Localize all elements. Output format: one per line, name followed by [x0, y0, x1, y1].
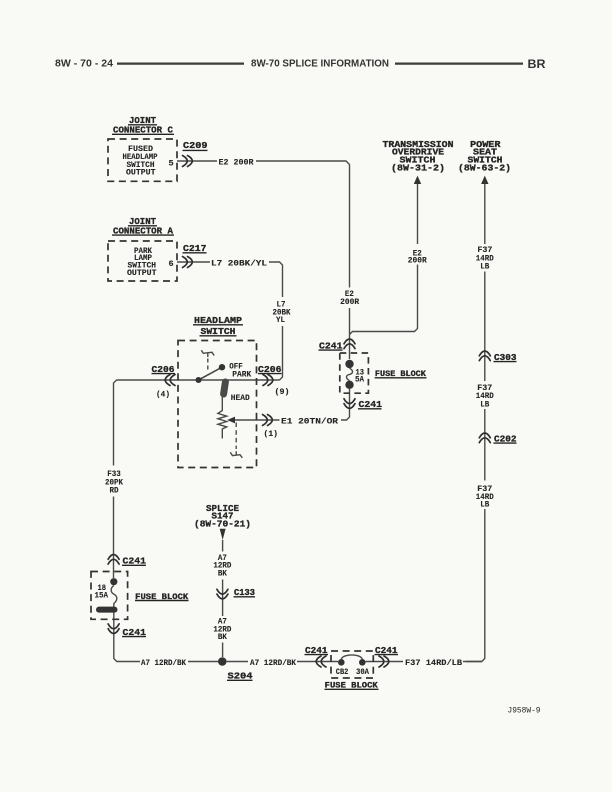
svg-text:(8W-63-2): (8W-63-2)	[458, 163, 511, 174]
svg-text:(9): (9)	[275, 387, 290, 397]
svg-text:5A: 5A	[355, 375, 365, 385]
svg-text:S204: S204	[228, 670, 253, 681]
svg-text:SWITCH: SWITCH	[201, 326, 236, 337]
svg-text:BK: BK	[218, 632, 228, 642]
svg-text:C241: C241	[319, 340, 343, 351]
svg-text:F37 14RD/LB: F37 14RD/LB	[405, 658, 462, 668]
svg-text:5: 5	[169, 159, 174, 169]
svg-text:L7 20BK/YL: L7 20BK/YL	[211, 258, 267, 268]
svg-text:LB: LB	[480, 400, 489, 410]
svg-text:8W - 70 - 24: 8W - 70 - 24	[55, 59, 113, 70]
svg-text:C217: C217	[183, 243, 207, 254]
svg-text:YL: YL	[276, 315, 285, 325]
svg-text:C241: C241	[123, 627, 147, 638]
svg-text:A7 12RD/BK: A7 12RD/BK	[141, 658, 187, 668]
svg-text:BK: BK	[218, 568, 228, 578]
svg-text:CB2: CB2	[336, 667, 349, 677]
svg-text:C206: C206	[152, 364, 175, 375]
svg-text:RD: RD	[110, 486, 119, 496]
svg-text:(4): (4)	[156, 390, 170, 400]
svg-text:FUSE BLOCK: FUSE BLOCK	[375, 369, 427, 379]
svg-text:J958W-9: J958W-9	[508, 706, 541, 716]
svg-text:(8W-70-21): (8W-70-21)	[194, 519, 251, 530]
svg-text:30A: 30A	[356, 667, 370, 677]
svg-text:C133: C133	[234, 587, 255, 598]
svg-text:OUTPUT: OUTPUT	[127, 268, 157, 278]
svg-text:C206: C206	[258, 364, 282, 375]
svg-text:E2 200R: E2 200R	[219, 157, 255, 167]
svg-text:C241: C241	[375, 645, 398, 656]
svg-text:C209: C209	[183, 140, 208, 151]
svg-text:LB: LB	[480, 500, 489, 510]
svg-text:C241: C241	[305, 645, 328, 656]
svg-text:CONNECTOR C: CONNECTOR C	[113, 125, 173, 136]
svg-text:200R: 200R	[340, 297, 360, 307]
svg-text:BR: BR	[528, 59, 547, 71]
svg-text:C241: C241	[359, 399, 383, 410]
svg-text:FUSE BLOCK: FUSE BLOCK	[325, 680, 379, 690]
svg-text:C303: C303	[494, 352, 517, 363]
svg-text:HEADLAMP: HEADLAMP	[194, 315, 242, 326]
svg-text:OUTPUT: OUTPUT	[126, 168, 156, 178]
svg-text:HEAD: HEAD	[231, 393, 250, 403]
svg-text:C241: C241	[123, 556, 147, 567]
svg-text:(1): (1)	[264, 429, 279, 439]
svg-text:C202: C202	[494, 433, 517, 444]
svg-text:A7 12RD/BK: A7 12RD/BK	[250, 658, 297, 668]
svg-text:6: 6	[169, 259, 174, 269]
svg-text:200R: 200R	[408, 256, 428, 266]
svg-text:(8W-31-2): (8W-31-2)	[391, 163, 445, 174]
svg-text:8W-70 SPLICE INFORMATION: 8W-70 SPLICE INFORMATION	[251, 58, 389, 70]
svg-text:CONNECTOR A: CONNECTOR A	[113, 225, 173, 236]
svg-text:PARK: PARK	[232, 370, 252, 380]
svg-text:FUSE BLOCK: FUSE BLOCK	[135, 592, 189, 602]
svg-text:LB: LB	[480, 262, 489, 272]
svg-text:E1 20TN/OR: E1 20TN/OR	[281, 416, 339, 426]
svg-text:15A: 15A	[95, 591, 109, 601]
